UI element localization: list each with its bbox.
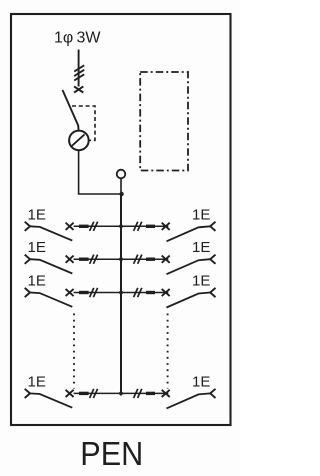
switch blade right branch 4 [167, 393, 211, 408]
wire meter to elbow to bus [79, 150, 121, 194]
terminal chevron left branch 1 [25, 222, 30, 231]
contact X left branch 1 [66, 223, 74, 230]
fuse left branch 4 [79, 392, 89, 395]
contact X right branch 3 [162, 289, 170, 296]
fuse left branch 1 [79, 225, 89, 228]
wire right branch 3 [121, 292, 168, 294]
terminal chevron right branch 1 [210, 222, 215, 231]
conductor tick marks (3 wires) [74, 65, 84, 80]
wire right branch 1 [121, 225, 168, 227]
switch blade left branch 2 [30, 259, 72, 273]
terminal chevron left branch 2 [25, 255, 30, 264]
svg-text:1E: 1E [28, 273, 46, 290]
wire incoming vertical [78, 50, 80, 87]
switch blade left branch 1 [30, 226, 72, 240]
terminal chevron left branch 3 [25, 288, 30, 297]
svg-text:1E: 1E [192, 206, 210, 223]
switch blade left branch 3 [30, 293, 72, 307]
bus vertical PEN [120, 194, 122, 396]
fuse right branch 3 [146, 291, 155, 294]
terminal chevron left branch 4 [25, 389, 30, 398]
junction dot bus row 4 [119, 392, 123, 396]
meter M1 (circle with pointer) [69, 131, 89, 151]
wire left branch 4 [74, 392, 121, 394]
junction dot bus row 3 [119, 291, 123, 295]
fuse left branch 2 [79, 258, 89, 261]
switch blade main disconnect [63, 90, 79, 130]
svg-text:1φ 3W: 1φ 3W [54, 30, 101, 47]
conductor marks right branch 1 [134, 222, 138, 231]
wire left branch 2 [74, 258, 121, 260]
fuse right branch 4 [146, 392, 155, 395]
svg-text:1E: 1E [192, 273, 210, 290]
switch blade right branch 3 [167, 293, 211, 308]
svg-text:PEN: PEN [80, 435, 143, 472]
fuse left branch 3 [79, 291, 89, 294]
terminal chevron right branch 4 [210, 389, 215, 398]
dotted continuation left [73, 314, 75, 389]
conductor marks left branch 1 [90, 222, 94, 231]
switch blade right branch 2 [167, 259, 211, 274]
switch blade right branch 1 [167, 226, 211, 241]
contact X left branch 2 [66, 256, 74, 263]
conductor marks left branch 2 [90, 255, 94, 264]
dash-dot rectangle (future equipment) [140, 72, 188, 171]
svg-text:1E: 1E [192, 239, 210, 256]
svg-text:1E: 1E [192, 373, 210, 390]
contact X right branch 2 [162, 256, 170, 263]
meter pointer [72, 134, 85, 146]
conductor marks right branch 4 [134, 389, 138, 398]
terminal chevron right branch 3 [210, 288, 215, 297]
svg-text:1E: 1E [28, 206, 46, 223]
svg-text:1E: 1E [28, 373, 46, 390]
fuse right branch 2 [146, 258, 155, 261]
junction dot [119, 192, 123, 196]
conductor marks left branch 4 [90, 389, 94, 398]
terminal chevron right branch 2 [210, 255, 215, 264]
wire right branch 4 [121, 392, 168, 394]
junction dot bus row 1 [119, 224, 123, 228]
contact X right branch 1 [162, 223, 170, 230]
contact X left branch 3 [66, 289, 74, 296]
node terminal circle [117, 170, 126, 179]
wire left branch 1 [74, 225, 121, 227]
wire node to junction [120, 178, 122, 196]
contact X main switch [74, 86, 83, 92]
svg-text:1E: 1E [28, 239, 46, 256]
contact X right branch 4 [162, 390, 170, 397]
wire right branch 2 [121, 258, 168, 260]
junction dot bus row 2 [119, 257, 123, 261]
conductor marks right branch 3 [134, 288, 138, 297]
switch blade left branch 4 [30, 393, 72, 407]
conductor marks right branch 2 [134, 255, 138, 264]
dotted continuation right [167, 314, 169, 389]
contact X left branch 4 [66, 390, 74, 397]
conductor marks left branch 3 [90, 288, 94, 297]
wire left branch 3 [74, 292, 121, 294]
fuse right branch 1 [146, 225, 155, 228]
dashed link box (switch to meter) [72, 106, 95, 140]
